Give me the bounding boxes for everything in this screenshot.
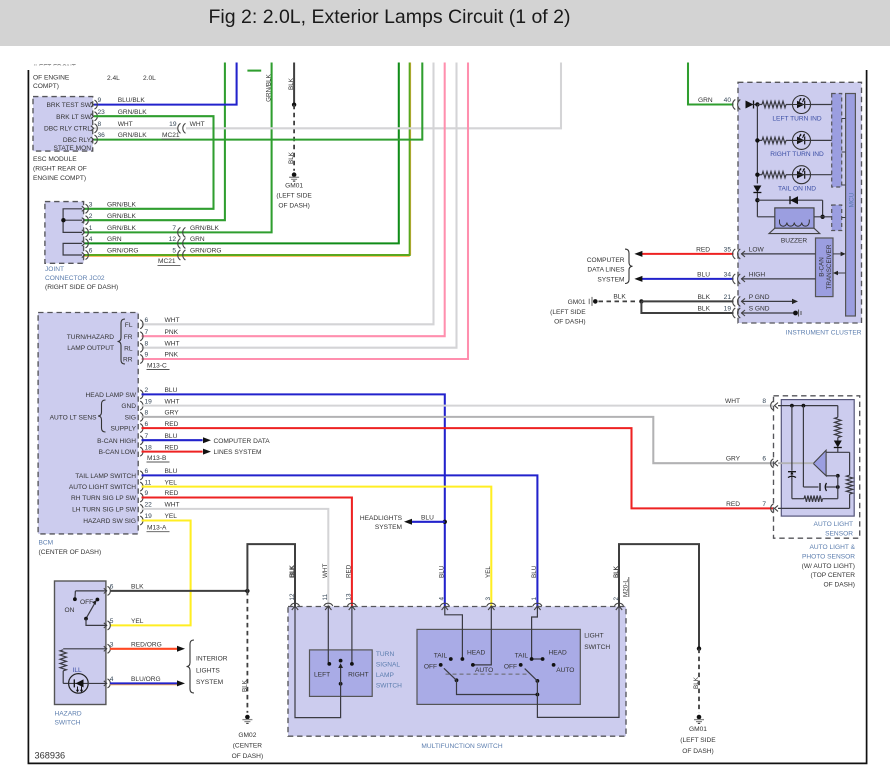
internal S GND line xyxy=(741,312,795,314)
svg-text:HEAD: HEAD xyxy=(467,650,486,657)
JC02 pin 3 connector xyxy=(82,204,89,213)
ground GM02 xyxy=(242,715,252,724)
wire WHT BCM RL (pin 8) to off-page top xyxy=(142,63,457,348)
svg-text:BLK: BLK xyxy=(289,565,296,578)
JC02 pin 1 connector xyxy=(82,228,89,237)
B-CAN to MCU links xyxy=(833,253,844,255)
svg-text:TAIL LAMP SWITCH: TAIL LAMP SWITCH xyxy=(75,473,136,480)
BCM pin 19 (GND) xyxy=(140,401,143,410)
svg-text:B-CAN HIGH: B-CAN HIGH xyxy=(97,438,136,445)
wire WHT BCM LH TURN SIG LP SW to MFS pin 11 xyxy=(142,509,329,607)
svg-text:GRN/ORG: GRN/ORG xyxy=(107,248,139,255)
svg-text:BLU: BLU xyxy=(697,271,710,278)
cluster pin 21 connector xyxy=(733,296,741,306)
wire RED BCM SUPPLY to auto light sensor pin 7 xyxy=(142,428,774,508)
svg-text:M13-A: M13-A xyxy=(147,525,167,532)
BCM pin 19 (HAZARD SW SIG) xyxy=(140,516,143,525)
strip-MCU tick xyxy=(842,184,846,186)
svg-text:P GND: P GND xyxy=(749,294,770,301)
wire light switch commons to MFS pin 2 xyxy=(457,680,538,694)
hazard switch pin 5 connector xyxy=(104,621,111,630)
svg-text:WHT: WHT xyxy=(118,121,133,128)
JC02 pin 4 connector xyxy=(82,239,89,248)
light switch box xyxy=(417,629,580,704)
B-CAN transceiver box xyxy=(816,238,834,297)
svg-text:SYSTEM: SYSTEM xyxy=(196,679,223,686)
svg-text:GRN/BLK: GRN/BLK xyxy=(118,109,148,116)
svg-text:GM02: GM02 xyxy=(238,732,256,739)
svg-text:AUTO LT SENS: AUTO LT SENS xyxy=(50,415,98,422)
switch lever (hazard) xyxy=(86,603,95,619)
svg-text:HEADLIGHTS: HEADLIGHTS xyxy=(360,515,403,522)
MFS pin 12 connector xyxy=(291,603,300,610)
arrow computer data xyxy=(634,251,642,257)
svg-text:GRN/ORG: GRN/ORG xyxy=(190,248,222,255)
BCM pin 7 (FR) xyxy=(140,332,143,341)
svg-text:5: 5 xyxy=(172,248,176,255)
wire BLU BCM TAIL LAMP SWITCH to MFS pin 1 xyxy=(142,475,538,607)
diode (sensor) xyxy=(834,441,842,448)
svg-text:HIGH: HIGH xyxy=(749,271,766,278)
svg-text:CONNECTOR JC02: CONNECTOR JC02 xyxy=(45,275,105,282)
contact HEAD (group2) xyxy=(541,657,545,661)
S GND termination xyxy=(793,311,798,316)
svg-text:LINES SYSTEM: LINES SYSTEM xyxy=(214,449,262,456)
svg-text:BUZZER: BUZZER xyxy=(781,237,808,244)
BCM pin 6 (TAIL LAMP SWITCH) xyxy=(140,471,143,480)
svg-text:6: 6 xyxy=(89,248,93,255)
strip-MCU tick xyxy=(842,118,846,120)
junction xyxy=(790,404,794,408)
svg-text:2.4L: 2.4L xyxy=(107,75,120,82)
wire MFS pin 12 to turn switch common xyxy=(295,607,341,718)
svg-text:PNK: PNK xyxy=(165,352,179,359)
svg-text:21: 21 xyxy=(724,294,732,301)
BCM pin 7 (B-CAN HIGH) xyxy=(140,436,143,445)
wire RED/ORG hazard pin 3 to interior lights xyxy=(110,648,177,650)
MFS pin 1 connector xyxy=(533,603,542,610)
svg-text:GRN/BLK: GRN/BLK xyxy=(190,225,220,232)
svg-text:11: 11 xyxy=(145,479,152,486)
svg-text:GRN: GRN xyxy=(107,236,122,243)
JC02 pin 6 connector xyxy=(82,251,89,260)
svg-text:2: 2 xyxy=(89,213,93,220)
svg-text:OF ENGINE: OF ENGINE xyxy=(33,75,70,82)
contact RIGHT xyxy=(350,662,354,666)
wire BLU BCM HEAD LAMP SW to headlights junction and MFS pin 4 xyxy=(142,394,445,607)
svg-text:WHT: WHT xyxy=(190,121,205,128)
ground GM01 (bottom) xyxy=(694,715,704,724)
junction diode row xyxy=(755,198,759,202)
svg-text:4: 4 xyxy=(89,236,93,243)
wire YEL BCM HAZARD SW SIG to hazard switch pin 5 xyxy=(110,521,191,626)
svg-text:HAZARD SW SIG: HAZARD SW SIG xyxy=(83,518,136,525)
svg-text:2.0L: 2.0L xyxy=(143,75,156,82)
resistor (sensor right) xyxy=(849,452,851,475)
svg-text:(LEFT SIDE: (LEFT SIDE xyxy=(680,737,716,744)
svg-text:GRN/BLK: GRN/BLK xyxy=(107,225,137,232)
brace computer data lines xyxy=(625,249,633,283)
wire GRN from top to cluster pin 40 xyxy=(688,63,734,105)
MFS pin 4 connector xyxy=(440,603,449,610)
contact TAIL (group2) xyxy=(530,657,534,661)
svg-text:M13-B: M13-B xyxy=(147,455,167,462)
svg-text:ILL: ILL xyxy=(73,667,82,674)
BCM pin 8 (RL) xyxy=(140,343,143,352)
svg-text:WHT: WHT xyxy=(725,398,740,405)
svg-text:BLU: BLU xyxy=(165,468,178,475)
svg-text:LOW: LOW xyxy=(749,246,765,253)
svg-text:368936: 368936 xyxy=(35,751,66,761)
arrow to headlights system xyxy=(404,519,412,525)
brace turn/hazard outputs xyxy=(118,319,126,364)
MFS pin 2 connector xyxy=(615,603,624,610)
svg-text:OFF: OFF xyxy=(504,663,517,670)
svg-text:GRN: GRN xyxy=(698,97,713,104)
wire GRN/BLK ESC BRK LT SW to JC02 pin 3 xyxy=(84,116,214,209)
wire BLK from top to splice, GM01 ground (upper) xyxy=(293,63,295,105)
JC02 pin 2 connector xyxy=(82,216,89,225)
contact TAIL (group1) xyxy=(449,657,453,661)
svg-text:SYSTEM: SYSTEM xyxy=(375,524,402,531)
svg-text:(TOP CENTER: (TOP CENTER xyxy=(811,572,856,579)
wire GRY inside to op-amp xyxy=(778,462,813,464)
LED TAIL ON IND xyxy=(793,166,811,184)
supply rail xyxy=(756,105,758,184)
svg-text:AUTO LIGHT: AUTO LIGHT xyxy=(814,521,853,528)
strip-MCU tick xyxy=(842,151,846,153)
mechanical link dashed xyxy=(446,673,527,675)
svg-text:RED: RED xyxy=(165,444,179,451)
svg-text:BLU: BLU xyxy=(439,565,446,578)
svg-text:YEL: YEL xyxy=(131,618,144,625)
wire RED B-CAN LOW to computer data lines xyxy=(142,451,203,453)
svg-text:5: 5 xyxy=(110,618,114,625)
junction rail xyxy=(755,173,759,177)
BCM pin 6 (FL) xyxy=(140,320,143,329)
cluster pin 35 connector xyxy=(733,249,741,259)
svg-text:LIGHT: LIGHT xyxy=(584,633,603,640)
svg-text:RED: RED xyxy=(346,564,353,578)
ESC module box xyxy=(33,97,93,152)
svg-text:OF DASH): OF DASH) xyxy=(278,203,310,210)
capacitor (left) xyxy=(791,406,793,471)
svg-text:HAZARD: HAZARD xyxy=(55,711,82,718)
op-amp (photo sensor amp) xyxy=(826,451,850,453)
svg-text:HEAD: HEAD xyxy=(549,650,568,657)
svg-text:TRANSCEIVER: TRANSCEIVER xyxy=(826,244,833,289)
JC02 internal bus pins 3-2-1 xyxy=(63,209,82,233)
junction rail top xyxy=(755,102,759,106)
BCM pin 8 (SIG) xyxy=(140,412,143,421)
svg-text:JOINT: JOINT xyxy=(45,266,64,273)
svg-text:YEL: YEL xyxy=(165,479,178,486)
svg-text:MCU: MCU xyxy=(849,192,856,207)
BCM pin 11 (AUTO LIGHT SWITCH) xyxy=(140,482,143,491)
svg-text:(CENTER: (CENTER xyxy=(233,743,263,750)
ESC pin 9 connector xyxy=(91,100,98,109)
svg-text:9: 9 xyxy=(145,490,149,497)
resistor (sensor bottom) xyxy=(792,498,804,500)
resistor (sensor top right) xyxy=(837,406,839,418)
wire MFS pin 1 to light switch TAIL contact xyxy=(532,607,538,660)
svg-text:WHT: WHT xyxy=(165,340,180,347)
wire RED BCM RH TURN SIG LP SW to MFS pin 13 xyxy=(142,498,352,608)
wire YEL BCM AUTO LIGHT SWITCH to MFS pin 3 xyxy=(142,487,492,607)
svg-text:LIGHTS: LIGHTS xyxy=(196,667,220,674)
svg-text:SWITCH: SWITCH xyxy=(376,683,402,690)
svg-text:LAMP: LAMP xyxy=(376,672,395,679)
connector MC21 row 1 xyxy=(178,227,186,237)
svg-text:PHOTO SENSOR: PHOTO SENSOR xyxy=(802,553,855,560)
svg-text:BCM: BCM xyxy=(39,540,54,547)
junction rail xyxy=(755,138,759,142)
connector MC21 row 6 xyxy=(178,250,186,260)
svg-text:6: 6 xyxy=(145,468,149,475)
wire BLU B-CAN HIGH to computer data lines xyxy=(142,439,203,441)
svg-text:7: 7 xyxy=(172,225,176,232)
svg-text:HEAD LAMP SW: HEAD LAMP SW xyxy=(86,392,137,399)
svg-text:19: 19 xyxy=(145,398,153,405)
junction xyxy=(836,474,840,478)
svg-text:MC21: MC21 xyxy=(158,258,176,265)
svg-text:S GND: S GND xyxy=(749,306,770,313)
ground GM01 (upper) xyxy=(289,172,299,181)
wire BLK S GND xyxy=(641,301,733,313)
BCM pin 22 (LH TURN SIG LP SW) xyxy=(140,504,143,513)
svg-text:RIGHT: RIGHT xyxy=(348,671,369,678)
wire BLK dashed to GM01 xyxy=(698,649,700,713)
svg-text:COMPUTER: COMPUTER xyxy=(587,257,625,264)
turn signal switch contacts xyxy=(327,607,329,664)
svg-text:OFF: OFF xyxy=(424,663,437,670)
svg-text:BLK: BLK xyxy=(693,676,700,689)
hazard switch pin 6 connector xyxy=(104,586,111,595)
wire BLU computer data (HIGH) xyxy=(642,278,734,280)
svg-text:DATA LINES: DATA LINES xyxy=(587,267,625,274)
svg-text:OFF: OFF xyxy=(80,599,93,606)
contact OFF (group1) xyxy=(439,663,443,667)
svg-text:BLK: BLK xyxy=(698,306,711,313)
light switch lever (group2) xyxy=(525,669,538,681)
svg-text:TAIL: TAIL xyxy=(515,653,529,660)
svg-text:ESC MODULE: ESC MODULE xyxy=(33,156,77,163)
multifunction switch box xyxy=(288,607,626,737)
svg-text:GND: GND xyxy=(121,403,136,410)
svg-text:BLU/ORG: BLU/ORG xyxy=(131,676,161,683)
svg-text:STATE MON: STATE MON xyxy=(54,145,92,152)
svg-text:(LEFT SIDE: (LEFT SIDE xyxy=(550,309,586,316)
resistor (LEFT TURN IND) xyxy=(757,104,762,106)
svg-text:19: 19 xyxy=(724,306,732,313)
contact (to pin 6) xyxy=(73,597,77,601)
svg-text:6: 6 xyxy=(145,317,149,324)
svg-text:OF DASH): OF DASH) xyxy=(823,582,855,589)
svg-text:GM01: GM01 xyxy=(568,299,586,306)
sensor pin 8 connector xyxy=(771,401,778,410)
junction xyxy=(802,404,806,408)
svg-text:GRY: GRY xyxy=(165,410,180,417)
cluster pin 19 connector xyxy=(733,308,741,318)
svg-text:8: 8 xyxy=(762,398,766,405)
resistor (RIGHT TURN IND) xyxy=(757,139,762,141)
bottom wire to pin 7 xyxy=(778,507,850,509)
resistor (TAIL ON IND) xyxy=(757,174,762,176)
wire to strip xyxy=(811,139,832,141)
svg-text:SUPPLY: SUPPLY xyxy=(110,426,136,433)
junction BLK xyxy=(697,646,701,650)
MFS pin 3 connector xyxy=(487,603,496,610)
wire MFS pin 3 to light switch AUTO contact xyxy=(473,607,491,665)
svg-text:19: 19 xyxy=(145,513,153,520)
contact AUTO (group2) xyxy=(552,663,556,667)
wire GRN/ORG JC02 pin 6 to off-page top xyxy=(84,255,410,257)
wire BLK MFS pin 2 up-over to GM01 ground (bottom right) xyxy=(619,544,699,649)
connector MC21 row 4 xyxy=(178,238,186,248)
svg-text:SYSTEM: SYSTEM xyxy=(597,276,624,283)
svg-text:BLU: BLU xyxy=(165,433,178,440)
auto light sensor inner box xyxy=(781,400,854,516)
buzzer xyxy=(757,216,774,218)
svg-text:12: 12 xyxy=(169,236,177,243)
cluster pin 34 connector xyxy=(733,274,741,284)
svg-text:MC21: MC21 xyxy=(162,132,180,139)
svg-text:YEL: YEL xyxy=(165,513,178,520)
svg-text:RH TURN SIG LP SW: RH TURN SIG LP SW xyxy=(71,495,137,502)
wire diode to rail xyxy=(754,104,758,106)
wire GRY BCM SIG to auto light sensor pin 6 xyxy=(142,417,774,463)
wire BLU to headlights system xyxy=(412,521,445,523)
svg-text:BLU/BLK: BLU/BLK xyxy=(118,97,146,104)
wire GRN JC02 pin 4 to off-page top xyxy=(84,63,399,244)
svg-text:40: 40 xyxy=(724,97,732,104)
wire WHT BCM FL (pin 6) to off-page top xyxy=(142,63,434,325)
svg-text:19: 19 xyxy=(169,121,177,128)
BCM pin 18 (B-CAN LOW) xyxy=(140,447,143,456)
wire BLK dashed from GM01 to junction xyxy=(599,300,638,302)
wire GRN/BLK vertical JC02 pin 1 to off-page top xyxy=(84,63,272,233)
svg-text:GRY: GRY xyxy=(726,456,741,463)
wire to strip xyxy=(811,104,832,106)
wire WHT BCM GND to auto light sensor pin 8 xyxy=(142,405,774,407)
svg-text:FL: FL xyxy=(125,322,133,329)
svg-text:RED/ORG: RED/ORG xyxy=(131,641,162,648)
svg-text:BLK: BLK xyxy=(698,294,711,301)
svg-text:BLK: BLK xyxy=(288,151,295,164)
diode D3 xyxy=(790,196,798,204)
svg-text:22: 22 xyxy=(145,502,153,509)
arrow interior lights xyxy=(177,680,185,686)
wire MFS pin 4 to light switch HEAD contact xyxy=(445,607,463,660)
junction BLK xyxy=(245,589,249,593)
light switch lever (group1) xyxy=(444,668,457,680)
internal LOW line xyxy=(741,253,816,255)
MCU box xyxy=(846,94,856,317)
svg-text:6: 6 xyxy=(110,583,114,590)
connector strip A xyxy=(832,94,842,188)
contact OFF xyxy=(96,598,100,602)
BCM pin 9 (RH TURN SIG LP SW) xyxy=(140,493,143,502)
svg-text:BLK: BLK xyxy=(131,583,144,590)
svg-text:8: 8 xyxy=(145,340,149,347)
svg-text:1: 1 xyxy=(89,225,93,232)
svg-text:WHT: WHT xyxy=(165,398,180,405)
svg-text:OF DASH): OF DASH) xyxy=(554,319,586,326)
svg-text:GRN/BLK: GRN/BLK xyxy=(266,73,273,101)
svg-text:SWITCH: SWITCH xyxy=(584,644,610,651)
svg-text:COMPUTER DATA: COMPUTER DATA xyxy=(214,438,271,445)
svg-text:34: 34 xyxy=(724,271,732,278)
contact LEFT xyxy=(327,662,331,666)
svg-text:RIGHT TURN IND: RIGHT TURN IND xyxy=(770,151,824,158)
capacitor (mid) xyxy=(802,406,804,487)
svg-text:23: 23 xyxy=(98,109,106,116)
joint connector JC02 box xyxy=(45,202,84,264)
LED RIGHT TURN IND xyxy=(793,131,811,149)
svg-text:8: 8 xyxy=(145,410,149,417)
wire BLK P GND xyxy=(641,300,733,302)
svg-text:SWITCH: SWITCH xyxy=(55,720,81,727)
arrow to computer data lines xyxy=(203,437,211,443)
svg-text:RED: RED xyxy=(165,490,179,497)
svg-text:RR: RR xyxy=(123,357,133,364)
resistor hazard ILL xyxy=(60,650,66,671)
diode D3 row xyxy=(757,199,822,201)
svg-text:GRN/BLK: GRN/BLK xyxy=(107,213,137,220)
svg-text:ON: ON xyxy=(65,607,75,614)
brace auto light sensor xyxy=(98,400,106,432)
BCM pin 9 (RR) xyxy=(140,355,143,364)
svg-text:WHT: WHT xyxy=(322,564,329,578)
svg-text:LAMP OUTPUT: LAMP OUTPUT xyxy=(67,345,114,352)
MFS pin 13 connector xyxy=(347,603,356,610)
svg-text:2: 2 xyxy=(145,387,149,394)
splice junction on BLK xyxy=(292,103,296,107)
wire TAIL-HEAD link (group 2) xyxy=(532,658,543,660)
svg-text:GRN/BLK: GRN/BLK xyxy=(107,201,137,208)
svg-text:(RIGHT SIDE OF DASH): (RIGHT SIDE OF DASH) xyxy=(45,284,118,291)
svg-text:13: 13 xyxy=(346,593,353,601)
svg-text:COMPT): COMPT) xyxy=(33,83,59,90)
connector strip B xyxy=(832,205,842,231)
svg-text:BLU: BLU xyxy=(531,565,538,578)
svg-text:AUTO LIGHT &: AUTO LIGHT & xyxy=(809,544,855,551)
svg-text:TURN: TURN xyxy=(376,651,395,658)
svg-text:OF DASH): OF DASH) xyxy=(232,753,264,760)
ESC pin 23 connector xyxy=(91,112,98,121)
svg-text:(LEFT FRONT: (LEFT FRONT xyxy=(33,64,76,71)
svg-text:(CENTER OF DASH): (CENTER OF DASH) xyxy=(39,549,102,556)
internal P GND line xyxy=(741,300,794,302)
brace interior lights system xyxy=(187,640,195,693)
wire PNK BCM RR (pin 9) to off-page top xyxy=(142,63,469,360)
svg-text:BLU: BLU xyxy=(421,514,434,521)
svg-text:WHT: WHT xyxy=(165,502,180,509)
wire PNK BCM FR (pin 7) to off-page top xyxy=(142,63,445,337)
diode D1 (cluster input) xyxy=(746,101,754,109)
svg-text:LH TURN SIG LP SW: LH TURN SIG LP SW xyxy=(72,507,137,514)
svg-text:18: 18 xyxy=(145,444,153,451)
svg-text:INSTRUMENT CLUSTER: INSTRUMENT CLUSTER xyxy=(786,329,862,336)
svg-text:RED: RED xyxy=(165,421,179,428)
wire to strip xyxy=(811,174,832,176)
wire GRN/BLK from off-page top to JC02 pin 2 xyxy=(84,63,225,221)
svg-text:FR: FR xyxy=(124,334,133,341)
arrow interior lights xyxy=(177,646,185,652)
junction headlights tap xyxy=(443,520,447,524)
contact neutral xyxy=(339,659,343,663)
svg-text:TURN/HAZARD: TURN/HAZARD xyxy=(67,334,114,341)
